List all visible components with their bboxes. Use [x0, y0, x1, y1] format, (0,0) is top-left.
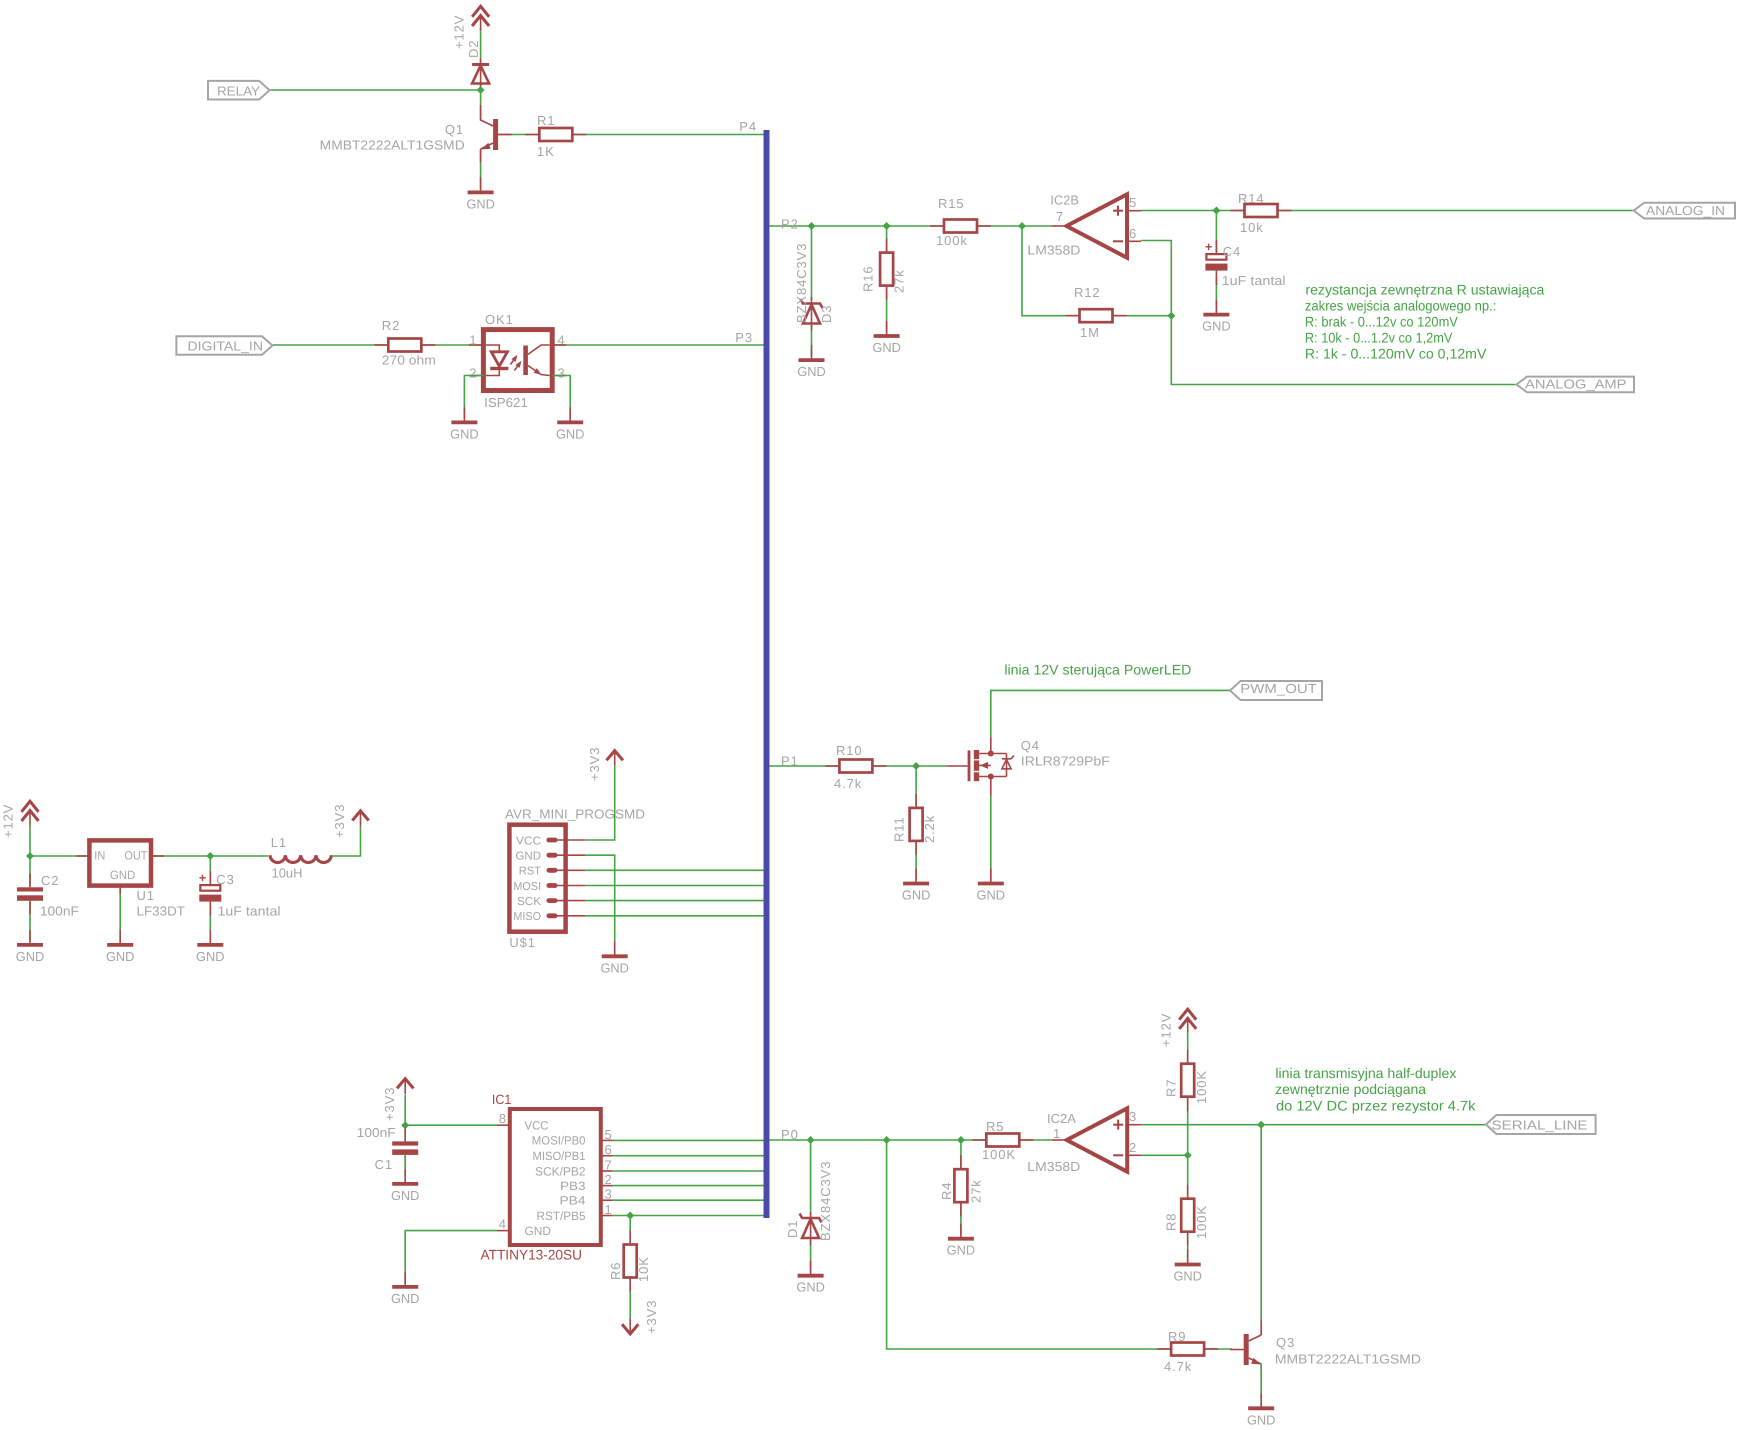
connector ANALOG_AMP [1517, 377, 1635, 393]
svg-text:+3V3: +3V3 [644, 1300, 659, 1334]
svg-text:+12V: +12V [1, 804, 16, 838]
wire P1 net (bus - R10 - Q4 gate) [770, 765, 947, 767]
capacitor C4 (polarized) [1215, 240, 1217, 254]
svg-text:GND: GND [110, 868, 136, 882]
svg-text:SCK: SCK [517, 896, 541, 908]
optocoupler OK1 [469, 344, 483, 346]
svg-text:1: 1 [1053, 1126, 1060, 1141]
wire MISO to bus [585, 915, 764, 917]
wire SCK to bus [585, 900, 764, 902]
connector PWM_OUT [1230, 681, 1322, 700]
svg-text:100nF: 100nF [40, 904, 79, 919]
wire P4 net (Q1 base - R1 - bus) [498, 134, 764, 136]
ground below C3 [209, 930, 211, 945]
ic IC1 ATTINY13-20SU [510, 1109, 601, 1245]
wire P0 net (bus - R5 - IC2A out) [770, 1139, 1052, 1141]
resistor R2 [374, 344, 388, 346]
svg-text:ATTINY13-20SU: ATTINY13-20SU [481, 1247, 583, 1263]
svg-text:zewnętrznie podciągana: zewnętrznie podciągana [1275, 1081, 1426, 1097]
svg-text:LF33DT: LF33DT [137, 904, 186, 919]
svg-text:R12: R12 [1074, 285, 1101, 300]
inductor L1 [270, 855, 331, 862]
supply +12V (divider) [1179, 1009, 1196, 1020]
resistor R7 [1187, 1050, 1189, 1064]
wire +12V to D2 to node [480, 28, 482, 90]
connector DIGITAL_IN [176, 336, 272, 355]
resistor R6 [629, 1231, 631, 1245]
svg-text:GND: GND [1173, 1269, 1202, 1284]
svg-text:Q3: Q3 [1276, 1335, 1295, 1350]
svg-text:VCC: VCC [516, 835, 541, 847]
supply +3V3 (above header) [607, 751, 623, 761]
resistor R16 [886, 239, 888, 253]
svg-text:SERIAL_LINE: SERIAL_LINE [1492, 1117, 1588, 1132]
svg-text:PB3: PB3 [560, 1179, 586, 1193]
ground below Q3 [1260, 1393, 1262, 1408]
resistor R15 [930, 225, 944, 227]
svg-text:R14: R14 [1238, 191, 1265, 206]
svg-text:GND: GND [797, 364, 826, 379]
svg-text:do 12V DC przez rezystor 4.7k: do 12V DC przez rezystor 4.7k [1276, 1097, 1477, 1113]
wire U1 OUT to L1 [151, 855, 268, 857]
svg-text:R7: R7 [1164, 1079, 1179, 1097]
wire RST/PB5 to bus [613, 1215, 764, 1217]
ground below R4 [960, 1224, 962, 1239]
ground below Q4 [990, 869, 992, 884]
svg-text:P3: P3 [735, 330, 753, 345]
junction P2/R16 [883, 222, 891, 230]
svg-text:R: brak - 0...12v co 120mV: R: brak - 0...12v co 120mV [1305, 314, 1459, 330]
ground below D3 [811, 345, 813, 360]
svg-text:10K: 10K [636, 1256, 651, 1282]
junction P2/feedback [1018, 222, 1026, 230]
resistor R12 [1066, 315, 1080, 317]
svg-text:C1: C1 [375, 1157, 393, 1172]
svg-text:27k: 27k [969, 1179, 984, 1203]
svg-text:3: 3 [558, 365, 565, 380]
svg-text:R: 1k - 0...120mV co 0,12mV: R: 1k - 0...120mV co 0,12mV [1305, 346, 1487, 362]
wire feedback to R12 [1022, 226, 1171, 316]
svg-text:GND: GND [391, 1291, 420, 1306]
junction R14/C4 [1212, 207, 1220, 215]
svg-text:ANALOG_IN: ANALOG_IN [1646, 203, 1725, 218]
resistor R10 [825, 765, 839, 767]
svg-text:+3V3: +3V3 [587, 747, 602, 781]
svg-text:IC1: IC1 [492, 1092, 512, 1107]
svg-text:+: + [1205, 240, 1212, 254]
transistor Q3 [1244, 1334, 1249, 1365]
junction P2/D3 [808, 222, 816, 230]
wire RELAY net [270, 89, 481, 91]
wire R16 branch [886, 226, 888, 332]
svg-text:2: 2 [1129, 1140, 1136, 1155]
resistor R9 [1157, 1348, 1171, 1350]
svg-text:7: 7 [1056, 209, 1063, 224]
svg-text:2: 2 [469, 365, 476, 380]
svg-text:GND: GND [796, 1280, 825, 1295]
wire Q1 collector [480, 90, 482, 121]
svg-text:R: 10k - 0...1.2v co 1,2mV: R: 10k - 0...1.2v co 1,2mV [1305, 330, 1453, 346]
svg-text:ISP621: ISP621 [484, 395, 528, 410]
svg-text:GND: GND [16, 949, 45, 964]
svg-text:BZX84C3V3: BZX84C3V3 [818, 1161, 833, 1241]
wire P3 net (DIGITAL_IN - R2 - OK1) [273, 344, 484, 346]
svg-text:R9: R9 [1168, 1329, 1186, 1344]
junction P1/R11 [912, 762, 920, 770]
wire MOSI to bus [585, 885, 764, 887]
ground below C1 [404, 1169, 406, 1184]
svg-text:IC2B: IC2B [1050, 193, 1079, 208]
svg-text:1K: 1K [537, 144, 555, 159]
connector U$1 AVR_MINI_PROGSMD [509, 825, 565, 932]
transistor Q4 IRLR8729PbF (n-mosfet) [947, 765, 968, 767]
svg-text:GND: GND [977, 888, 1006, 903]
wire IC2B pin6 to ANALOG_AMP [1141, 241, 1517, 385]
wire Q4 drain to PWM_OUT [991, 690, 1230, 737]
svg-text:1uF tantal: 1uF tantal [218, 904, 281, 919]
wire R7/R8 divider vertical [1187, 1032, 1189, 1261]
svg-text:GND: GND [525, 1224, 552, 1238]
resistor R5 [972, 1139, 986, 1141]
svg-text:D1: D1 [785, 1220, 800, 1238]
wire VCC net to C1/+3V3 [405, 1124, 497, 1126]
svg-text:GND: GND [600, 960, 629, 975]
svg-text:RST/PB5: RST/PB5 [537, 1209, 586, 1223]
junction RST/R6 [626, 1212, 634, 1220]
svg-text:R10: R10 [836, 743, 863, 758]
junction pin2/R7/R8 [1184, 1151, 1192, 1159]
svg-text:C3: C3 [216, 872, 234, 887]
ground below IC1 [404, 1272, 406, 1287]
svg-text:MMBT2222ALT1GSMD: MMBT2222ALT1GSMD [320, 138, 465, 153]
svg-text:GND: GND [1247, 1412, 1276, 1427]
svg-text:10uH: 10uH [272, 866, 303, 881]
svg-text:AVR_MINI_PROGSMD: AVR_MINI_PROGSMD [505, 806, 645, 821]
svg-text:+: + [199, 871, 206, 885]
svg-text:linia 12V sterująca PowerLED: linia 12V sterująca PowerLED [1004, 662, 1191, 678]
svg-text:5: 5 [1129, 195, 1136, 210]
wire OK1 pin2 to GND [464, 376, 483, 419]
svg-text:D2: D2 [466, 40, 481, 58]
ground below D1 [810, 1261, 812, 1276]
svg-text:1M: 1M [1080, 325, 1100, 340]
svg-text:rezystancja zewnętrzna R usta: rezystancja zewnętrzna R ustawiająca [1305, 282, 1544, 298]
svg-text:R16: R16 [861, 265, 876, 292]
wire MOSI/PB0 to bus (P0) [613, 1139, 764, 1141]
svg-text:C4: C4 [1223, 244, 1241, 259]
wire U1 GND pin [119, 886, 121, 941]
svg-text:GND: GND [947, 1243, 976, 1258]
ground below R8 [1187, 1250, 1189, 1265]
resistor R1 [525, 134, 539, 136]
capacitor C2 [29, 873, 31, 887]
svg-text:GND: GND [872, 340, 901, 355]
svg-text:6: 6 [1129, 226, 1136, 241]
bus P0..P4 (vertical blue bus) [764, 130, 770, 1218]
wire L1 to +3V3 [332, 826, 361, 856]
svg-text:C2: C2 [41, 873, 59, 888]
resistor R4 [960, 1155, 962, 1169]
svg-text:4.7k: 4.7k [1164, 1359, 1192, 1374]
wire PB3 to bus [613, 1185, 764, 1187]
wire R6 branch [629, 1216, 631, 1245]
svg-text:GND: GND [1202, 319, 1231, 334]
wire IC2B pin5 to ANALOG_IN [1141, 210, 1634, 212]
svg-text:100K: 100K [1194, 1070, 1209, 1104]
svg-text:4: 4 [558, 333, 565, 348]
resistor R14 [1231, 210, 1245, 212]
svg-text:27k: 27k [892, 269, 907, 293]
supply +3V3 (below R6, arrow down) [622, 1324, 638, 1334]
svg-text:+3V3: +3V3 [332, 804, 347, 838]
svg-text:P2: P2 [781, 217, 799, 232]
svg-text:8: 8 [499, 1111, 506, 1126]
svg-text:VCC: VCC [525, 1119, 549, 1133]
ground below C2 [29, 930, 31, 945]
svg-text:R6: R6 [608, 1262, 623, 1280]
svg-text:100K: 100K [982, 1147, 1016, 1162]
wire IC2A pin2 to divider [1141, 1154, 1188, 1156]
svg-text:DIGITAL_IN: DIGITAL_IN [188, 339, 264, 354]
ground below R16 [886, 321, 888, 336]
resistor R11 [915, 794, 917, 808]
svg-text:IRLR8729PbF: IRLR8729PbF [1021, 754, 1110, 769]
wire GND pin to ground [585, 855, 615, 952]
ground below Q1 [480, 177, 482, 192]
svg-text:P0: P0 [781, 1127, 799, 1142]
svg-text:LM358D: LM358D [1027, 1159, 1080, 1174]
connector ANALOG_IN [1634, 203, 1735, 219]
svg-text:BZX84C3V3: BZX84C3V3 [794, 243, 809, 323]
svg-text:GND: GND [466, 196, 495, 211]
ground below R11 [915, 869, 917, 884]
svg-text:linia transmisyjna half-duplex: linia transmisyjna half-duplex [1275, 1065, 1456, 1081]
svg-text:RELAY: RELAY [217, 84, 260, 99]
svg-text:GND: GND [516, 851, 542, 863]
ground below header [614, 941, 616, 956]
svg-text:R1: R1 [537, 113, 555, 128]
wire IC1 GND pin to ground [405, 1231, 497, 1283]
svg-text:P4: P4 [739, 119, 757, 134]
svg-text:PB4: PB4 [560, 1194, 586, 1208]
svg-text:SCK/PB2: SCK/PB2 [535, 1164, 586, 1178]
ground below OK1 pin2 [463, 407, 465, 422]
svg-text:MISO/PB1: MISO/PB1 [533, 1149, 586, 1163]
supply +3V3 (power out) [352, 811, 368, 821]
junction P0/Q3-base-net [883, 1136, 891, 1144]
wire OK1 pin4 to bus [552, 344, 763, 346]
connector RELAY [208, 81, 270, 100]
wire P2 net (bus - R15 - IC2B out) [770, 225, 1052, 227]
wire MISO/PB1 to bus [613, 1155, 764, 1157]
junction SERIAL_LINE/Q3 [1257, 1121, 1265, 1129]
op-amp IC2B [1067, 194, 1128, 257]
svg-text:GND: GND [106, 949, 135, 964]
svg-text:GND: GND [556, 426, 585, 441]
junction VCC/C1 [401, 1121, 409, 1129]
wire Q4 source to GND [990, 796, 992, 881]
wire to Q3 base (long vertical) [887, 1140, 1232, 1349]
svg-text:PWM_OUT: PWM_OUT [1240, 681, 1317, 696]
svg-text:D3: D3 [819, 305, 834, 323]
svg-text:GND: GND [450, 426, 479, 441]
supply +3V3 (IC1) [397, 1079, 413, 1089]
svg-text:10k: 10k [1240, 220, 1264, 235]
svg-text:MISO: MISO [513, 911, 541, 923]
wire OK1 pin3 to GND [552, 376, 570, 419]
svg-text:IC2A: IC2A [1047, 1111, 1076, 1126]
wire C2 branch [29, 856, 31, 886]
diode D2 [472, 66, 489, 84]
wire SCK/PB2 to bus [613, 1170, 764, 1172]
wire IC2A pin3 to SERIAL_LINE [1141, 1124, 1486, 1126]
wire D1 branch [810, 1140, 812, 1215]
wire D3 branch [811, 226, 813, 300]
ground below OK1 pin3 [569, 407, 571, 422]
svg-text:3: 3 [1129, 1109, 1136, 1124]
svg-text:LM358D: LM358D [1027, 243, 1080, 258]
svg-text:4: 4 [499, 1217, 506, 1232]
svg-text:MOSI: MOSI [513, 881, 541, 893]
svg-text:U1: U1 [137, 888, 155, 903]
svg-text:Q4: Q4 [1021, 738, 1040, 753]
svg-text:R4: R4 [939, 1182, 954, 1200]
wire Q1 emitter to GND [480, 150, 482, 189]
ground below C4 [1215, 300, 1217, 315]
svg-text:2.2k: 2.2k [922, 815, 937, 843]
transistor Q1 [493, 119, 498, 150]
svg-text:P1: P1 [781, 754, 799, 769]
svg-text:+12V: +12V [452, 15, 467, 49]
wire C4 branch [1215, 211, 1217, 255]
junction +12V/C2 [26, 852, 34, 860]
svg-text:Q1: Q1 [445, 122, 464, 137]
svg-text:+12V: +12V [1159, 1013, 1174, 1047]
wire VCC to +3V3 [585, 766, 615, 840]
svg-text:MMBT2222ALT1GSMD: MMBT2222ALT1GSMD [1275, 1352, 1421, 1367]
svg-text:R8: R8 [1164, 1213, 1179, 1231]
svg-text:IN: IN [94, 849, 105, 863]
wire PB4 to bus [613, 1199, 764, 1201]
junction P0/D1 [807, 1136, 815, 1144]
svg-text:MOSI/PB0: MOSI/PB0 [532, 1134, 586, 1148]
junction RELAY/D2/Q1 [477, 86, 485, 94]
svg-text:zakres wejścia analogowego np.: zakres wejścia analogowego np.: [1305, 298, 1497, 314]
supply +12V (top) [472, 6, 489, 16]
ground below U1 [119, 930, 121, 945]
svg-text:R5: R5 [986, 1119, 1004, 1134]
wire R11 branch [915, 766, 917, 880]
svg-text:R15: R15 [938, 196, 965, 211]
svg-text:+3V3: +3V3 [382, 1087, 397, 1121]
junction R12/pin6 net [1167, 312, 1175, 320]
svg-text:GND: GND [902, 888, 931, 903]
voltage regulator U1 LF33DT [77, 855, 90, 857]
svg-text:100K: 100K [1194, 1205, 1209, 1239]
svg-text:ANALOG_AMP: ANALOG_AMP [1525, 376, 1627, 391]
op-amp IC2A [1067, 1108, 1128, 1171]
wire RST to bus [585, 869, 764, 871]
wire SERIAL_LINE to Q3 collector [1260, 1125, 1262, 1322]
junction P0/R4 [957, 1136, 965, 1144]
svg-text:U$1: U$1 [509, 935, 536, 950]
resistor R8 [1187, 1185, 1189, 1199]
svg-text:RST: RST [519, 866, 541, 878]
supply +12V (power input) [22, 801, 39, 812]
junction OUT/C3 [206, 852, 214, 860]
svg-text:100nF: 100nF [357, 1125, 396, 1140]
wire C1 to GND [404, 1155, 406, 1180]
wire R4 branch [960, 1140, 962, 1235]
svg-text:4.7k: 4.7k [834, 776, 862, 791]
svg-text:OK1: OK1 [485, 312, 514, 327]
svg-text:GND: GND [196, 949, 225, 964]
svg-text:1uF tantal: 1uF tantal [1222, 273, 1286, 288]
capacitor C3 (polarized) [209, 856, 211, 884]
zener diode D1 [802, 1219, 819, 1238]
zener diode D3 [803, 305, 820, 324]
wire Q3 emitter to GND [1260, 1364, 1262, 1404]
svg-text:R11: R11 [892, 816, 907, 842]
connector SERIAL_LINE [1486, 1115, 1596, 1134]
svg-text:OUT: OUT [124, 849, 148, 863]
svg-text:GND: GND [391, 1188, 420, 1203]
svg-text:L1: L1 [271, 835, 287, 850]
svg-text:270 ohm: 270 ohm [382, 353, 436, 368]
capacitor C1 [404, 1127, 406, 1141]
svg-text:100k: 100k [936, 233, 968, 248]
wire +12V to U1 IN [30, 824, 89, 856]
svg-text:1: 1 [469, 333, 476, 348]
svg-text:R2: R2 [382, 318, 400, 333]
